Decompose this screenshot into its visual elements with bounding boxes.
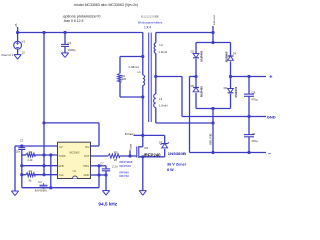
- svg-text:MUR460: MUR460: [234, 86, 238, 97]
- svg-text:C3: C3: [38, 180, 42, 184]
- svg-text:.model MC33063 ako: MC33063 (V: .model MC33063 ako: MC33063 (Vje=2x): [73, 3, 138, 7]
- svg-text:EFB: EFB: [59, 164, 64, 168]
- svg-text:Rst: Rst: [85, 145, 89, 149]
- svg-text:C4: C4: [68, 41, 72, 45]
- svg-text:1.6mH: 1.6mH: [159, 50, 168, 54]
- svg-text:36 V Zener: 36 V Zener: [167, 163, 187, 167]
- svg-text:.options plotwinsize=0: .options plotwinsize=0: [62, 14, 101, 18]
- svg-text:D5: D5: [191, 84, 195, 88]
- svg-text:10n: 10n: [16, 150, 21, 154]
- svg-text:D6: D6: [224, 86, 228, 90]
- svg-text:D2: D2: [191, 49, 195, 53]
- svg-text:94,5 kHz: 94,5 kHz: [98, 202, 117, 207]
- svg-text:TRIG: TRIG: [83, 164, 89, 168]
- svg-text:.tran 0 6 12 5: .tran 0 6 12 5: [63, 19, 84, 23]
- svg-text:470µ: 470µ: [251, 98, 258, 102]
- svg-text:D4: D4: [233, 52, 237, 56]
- svg-text:sek.out: sek.out: [212, 15, 216, 25]
- svg-text:470µ: 470µ: [251, 139, 258, 143]
- svg-text:9k: 9k: [29, 178, 32, 182]
- svg-text:1000p: 1000p: [68, 48, 76, 52]
- svg-text:GND: GND: [84, 173, 90, 177]
- svg-text:IRFP540: IRFP540: [119, 164, 131, 168]
- svg-text:MUR460: MUR460: [200, 50, 204, 61]
- svg-text:1.6mH: 1.6mH: [159, 104, 168, 108]
- svg-text:U1: U1: [73, 169, 77, 173]
- svg-text:2.2n: 2.2n: [112, 164, 118, 168]
- svg-text:IRFP240: IRFP240: [144, 152, 162, 157]
- svg-text:R5: R5: [114, 150, 118, 154]
- svg-text:Tron: Tron: [59, 173, 65, 177]
- svg-text:100: 100: [122, 77, 127, 81]
- svg-text:C7: C7: [100, 161, 104, 165]
- svg-text:sek.mid: sek.mid: [209, 133, 213, 145]
- svg-text:Gate: Gate: [129, 143, 133, 150]
- svg-text:BAV45/BRL: BAV45/BRL: [35, 189, 48, 192]
- svg-text:MC3063: MC3063: [70, 150, 80, 154]
- svg-text:C2: C2: [20, 139, 24, 143]
- svg-text:R2: R2: [29, 150, 33, 154]
- svg-text:M1: M1: [144, 146, 148, 150]
- svg-text:1N5380B: 1N5380B: [168, 152, 187, 156]
- svg-text:12: 12: [22, 51, 26, 55]
- svg-text:C8: C8: [252, 91, 256, 95]
- svg-text:Rser=0.1: Rser=0.1: [2, 53, 14, 57]
- svg-text:K1 L1 L2 L3 0.998: K1 L1 L2 L3 0.998: [141, 14, 159, 18]
- svg-text:C9: C9: [252, 132, 256, 136]
- svg-text:8 W: 8 W: [167, 168, 174, 172]
- svg-text:IRF740: IRF740: [119, 174, 129, 178]
- svg-text:V1: V1: [22, 39, 26, 43]
- svg-text:L1: L1: [138, 70, 142, 74]
- svg-text:Windungsverhältnis: Windungsverhältnis: [138, 21, 163, 25]
- svg-text:R1: R1: [29, 169, 33, 173]
- svg-text:CV: CV: [59, 145, 63, 149]
- svg-text:TVRS: TVRS: [59, 154, 66, 158]
- svg-text:1:4:4: 1:4:4: [144, 26, 151, 30]
- svg-text:20: 20: [114, 158, 118, 162]
- svg-text:0.08mH: 0.08mH: [129, 65, 139, 69]
- svg-text:+: +: [269, 74, 273, 80]
- svg-text:MUR460: MUR460: [200, 86, 204, 97]
- svg-text:L2: L2: [160, 43, 164, 47]
- svg-text:OUT: OUT: [84, 154, 90, 158]
- svg-text:GND: GND: [267, 115, 276, 120]
- svg-text:+B: +B: [14, 24, 18, 28]
- svg-text:−: −: [268, 151, 271, 157]
- svg-text:MUR460: MUR460: [224, 51, 228, 62]
- svg-text:L3: L3: [159, 97, 163, 101]
- svg-text:D3: D3: [159, 140, 163, 144]
- svg-text:2.2k: 2.2k: [27, 158, 33, 162]
